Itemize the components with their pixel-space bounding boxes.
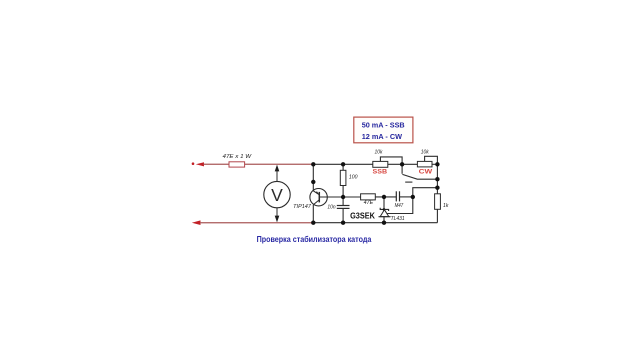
capacitor C 10n (vertical) <box>342 197 344 205</box>
potentiometer CW 10k <box>417 161 432 167</box>
node base <box>341 195 345 199</box>
switch contact dash <box>405 181 412 183</box>
node switch right <box>435 177 439 181</box>
wire 47E to M47 node <box>375 196 396 198</box>
svg-text:47E x 1 W: 47E x 1 W <box>223 154 253 160</box>
svg-text:Проверка стабилизатора катода: Проверка стабилизатора катода <box>257 234 372 244</box>
wire collector to bottom rail <box>312 205 314 223</box>
resistor R 100 (vertical) <box>342 164 344 170</box>
switch lever <box>402 174 437 179</box>
wire emitter from top rail <box>312 164 314 191</box>
node TL431 cathode <box>382 195 386 199</box>
svg-text:47E: 47E <box>364 200 374 206</box>
transistor base bar <box>318 192 320 203</box>
potentiometer SSB 10k <box>373 161 388 167</box>
resistor R 47E (horizontal) <box>361 194 376 200</box>
svg-text:SSB: SSB <box>373 169 388 176</box>
callout box 50mA/12mA <box>354 117 413 143</box>
wire top rail black: node E to SSB pot <box>313 163 373 165</box>
wire top rail black: SSB pot to CW pot <box>388 163 418 165</box>
transistor collector diagonal <box>313 200 319 205</box>
triangle <box>380 210 389 217</box>
resistor R 1k (vertical) <box>435 194 441 210</box>
svg-text:100: 100 <box>349 175 358 181</box>
node E top rail at transistor <box>311 162 315 166</box>
switch S1 <box>401 164 403 174</box>
shunt regulator U1 TL431 <box>383 197 385 209</box>
cathode bar <box>380 208 388 211</box>
wire top rail black: CW pot to right corner <box>432 163 438 165</box>
wire base <box>319 196 360 198</box>
capacitor C M47 <box>395 191 397 201</box>
node bottom rail at C10n <box>341 221 345 225</box>
voltmeter upper lead with arrow <box>276 171 278 182</box>
wire bottom rail red segment <box>200 222 313 224</box>
svg-text:G3SEK: G3SEK <box>350 210 375 220</box>
svg-text:50 mA - SSB: 50 mA - SSB <box>362 120 405 129</box>
arrow to PSU (top left, red) <box>196 162 204 166</box>
node emitter mid dot <box>311 180 315 184</box>
svg-text:12 mA - CW: 12 mA - CW <box>362 132 403 141</box>
anode bar <box>379 216 391 218</box>
svg-text:V: V <box>271 185 283 205</box>
node right vertical mid <box>435 186 439 190</box>
arrow to ground (bottom left, red) <box>192 220 201 225</box>
node bottom rail at collector <box>311 221 315 225</box>
svg-text:M47: M47 <box>395 203 404 209</box>
CW wiper wire <box>425 156 438 164</box>
svg-text:10n: 10n <box>327 205 335 211</box>
resistor R 47E x 1W <box>229 162 245 167</box>
voltmeter V1 circle <box>264 181 290 207</box>
node input marker (red dot) <box>192 162 195 165</box>
node M47 right <box>411 195 415 199</box>
reference wire <box>387 197 413 214</box>
node top rail at R100 <box>341 162 345 166</box>
wire right vertical <box>436 164 438 194</box>
wire bottom rail black segment <box>313 222 437 224</box>
svg-text:10k: 10k <box>375 150 383 156</box>
SSB wiper wire <box>380 157 402 164</box>
wire switch node to ref node <box>413 188 438 197</box>
transistor emitter diagonal with arrow <box>313 191 319 195</box>
svg-text:CW: CW <box>419 169 434 176</box>
node bottom rail at TL431 anode <box>382 221 386 225</box>
svg-text:TL431: TL431 <box>391 216 405 222</box>
svg-text:1k: 1k <box>443 203 449 209</box>
voltmeter lower lead with arrow <box>276 208 278 217</box>
svg-text:10k: 10k <box>421 150 429 156</box>
wire top rail red segment <box>204 163 314 165</box>
node top rail right corner <box>435 162 439 166</box>
transistor Q1 TIP147 circle <box>310 189 327 206</box>
node top rail SSB wiper <box>400 162 404 166</box>
svg-text:TIP147: TIP147 <box>293 204 312 210</box>
